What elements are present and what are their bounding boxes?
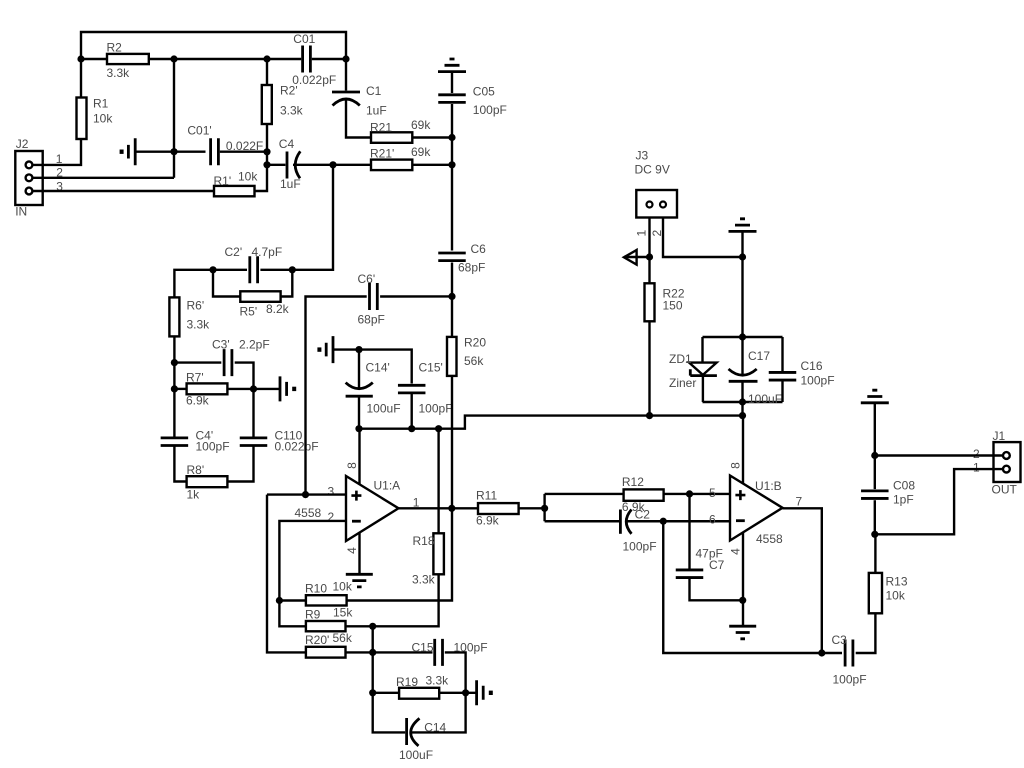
wire C14prime top to C15prime xyxy=(359,350,412,384)
svg-text:OUT: OUT xyxy=(992,483,1018,497)
pin 1 label J2 xyxy=(56,152,63,166)
svg-text:1pF: 1pF xyxy=(893,493,914,507)
svg-text:69k: 69k xyxy=(411,145,431,159)
capacitor C14prime polarized xyxy=(346,361,401,416)
svg-text:R8': R8' xyxy=(187,463,205,477)
svg-text:C2: C2 xyxy=(635,508,651,522)
junction C08 top node xyxy=(871,452,878,459)
junction zener top xyxy=(739,333,746,340)
svg-text:0.022pF: 0.022pF xyxy=(275,440,319,454)
svg-text:1uF: 1uF xyxy=(280,177,301,191)
svg-text:100uF: 100uF xyxy=(748,392,782,406)
svg-text:R11: R11 xyxy=(476,489,497,503)
wire R10 stubs xyxy=(279,599,306,601)
resistor R6prime xyxy=(169,297,210,336)
junction C14prime bottom xyxy=(355,425,362,432)
svg-text:56k: 56k xyxy=(464,354,484,368)
junction R9 wire at x372 xyxy=(369,623,376,630)
svg-text:3.3k: 3.3k xyxy=(187,318,211,332)
wire C16 branch xyxy=(781,337,783,371)
power flag arrow xyxy=(624,250,650,265)
ground above C05 xyxy=(438,59,466,72)
capacitor C2 polarized xyxy=(620,508,656,554)
wire ground down to zener network xyxy=(741,231,743,337)
svg-text:R20': R20' xyxy=(305,633,329,647)
junction R19 right xyxy=(462,689,469,696)
svg-text:4558: 4558 xyxy=(756,532,783,546)
capacitor C14 polarized xyxy=(399,718,447,762)
resistor R12 xyxy=(622,475,664,514)
wire C01 right to corner xyxy=(312,58,346,60)
wire C3prime row xyxy=(174,361,221,363)
junction at x174 top xyxy=(170,55,177,62)
junction U1B pin4 at C7 wire xyxy=(739,597,746,604)
junction C7 top at pin5 wire xyxy=(686,490,693,497)
svg-text:U1:B: U1:B xyxy=(755,479,782,493)
junction C2prime right xyxy=(289,266,296,273)
svg-text:R9: R9 xyxy=(305,607,321,621)
svg-text:100pF: 100pF xyxy=(419,402,453,416)
wire vertical x174 net xyxy=(173,59,175,178)
svg-text:3: 3 xyxy=(328,485,335,499)
ground above C08 xyxy=(861,390,889,403)
junction x174 at ground wire xyxy=(170,148,177,155)
wire C4prime vertical xyxy=(173,389,175,438)
capacitor C08 xyxy=(861,479,915,507)
wire R7prime stubs xyxy=(174,388,186,390)
pin 7 label U1B xyxy=(796,495,803,509)
svg-text:DC 9V: DC 9V xyxy=(635,163,670,177)
wire J2 pin2 to node x174 xyxy=(33,177,174,179)
ground right of R19 xyxy=(477,680,493,705)
wire R7prime to ground xyxy=(254,388,280,390)
wire C110 vertical xyxy=(252,389,254,438)
junction R11 right node xyxy=(541,505,548,512)
svg-text:1: 1 xyxy=(634,229,648,236)
svg-text:4: 4 xyxy=(729,548,743,555)
capacitor C6 xyxy=(438,242,486,275)
capacitor C15 xyxy=(412,639,488,666)
wire R20 bottom to output node xyxy=(451,376,453,508)
wire R1prime right end up to C4 node xyxy=(255,165,268,191)
svg-text:IN: IN xyxy=(15,205,27,219)
junction rail at U1B pin8 line xyxy=(739,412,746,419)
junction at C1 top xyxy=(342,55,349,62)
wire C1 bottom to R21 xyxy=(346,100,371,138)
wire C1 top xyxy=(345,59,347,91)
wire supply rail to step xyxy=(359,416,743,429)
wire C6 bottom xyxy=(451,263,453,297)
wire U1A plus input xyxy=(267,493,346,495)
junction R10 left xyxy=(276,597,283,604)
wire U1B pin8 xyxy=(742,416,744,484)
svg-text:100pF: 100pF xyxy=(196,440,230,454)
svg-text:69k: 69k xyxy=(411,118,431,132)
wire U1A pin8 xyxy=(358,429,360,485)
capacitor C01prime xyxy=(187,124,263,166)
svg-text:R18: R18 xyxy=(413,534,435,548)
wire R22 bottom to rail xyxy=(648,321,650,415)
svg-text:1k: 1k xyxy=(187,488,201,502)
wire zener box bottom xyxy=(703,401,783,403)
resistor R1prime xyxy=(214,170,259,197)
wire R6prime bottom xyxy=(173,336,175,389)
wire x372 vertical R9 to R20prime xyxy=(372,626,374,652)
junction R7prime left xyxy=(171,385,178,392)
svg-text:R2: R2 xyxy=(107,41,123,55)
capacitor C16 xyxy=(769,359,835,388)
pin 2 label J2 xyxy=(56,165,63,179)
capacitor C3 xyxy=(832,633,867,687)
wire node A vertical to R20prime xyxy=(267,495,306,653)
svg-text:100pF: 100pF xyxy=(623,540,657,554)
svg-text:1uF: 1uF xyxy=(366,104,387,118)
capacitor C01 xyxy=(292,32,336,87)
resistor R18 xyxy=(412,533,444,586)
svg-text:10k: 10k xyxy=(333,580,353,594)
wire R13 top to C08 node xyxy=(874,534,876,573)
svg-text:R1: R1 xyxy=(93,97,109,111)
junction zener bottom xyxy=(739,398,746,405)
wire R21prime to x452 xyxy=(412,164,452,166)
junction R2prime line at ground wire xyxy=(263,148,270,155)
svg-text:0.022pF: 0.022pF xyxy=(292,73,336,87)
wire J1 pin2 xyxy=(875,454,1002,456)
wire C7 vertical xyxy=(688,494,690,569)
pin 5 label U1B xyxy=(709,486,716,500)
svg-text:68pF: 68pF xyxy=(458,261,485,275)
svg-text:J3: J3 xyxy=(636,149,649,163)
svg-text:3.3k: 3.3k xyxy=(426,674,450,688)
junction ground vertical at pin2 wire xyxy=(739,253,746,260)
resistor R20 xyxy=(447,336,486,376)
svg-text:6: 6 xyxy=(709,513,716,527)
svg-text:C16: C16 xyxy=(801,359,823,373)
wire R18 top xyxy=(437,429,439,534)
svg-text:100pF: 100pF xyxy=(833,673,867,687)
svg-text:C08: C08 xyxy=(893,479,915,493)
svg-text:C14': C14' xyxy=(366,361,390,375)
svg-text:U1:A: U1:A xyxy=(374,479,401,493)
pin 4 label U1A xyxy=(345,547,359,554)
ground right of R7prime xyxy=(280,376,296,401)
svg-text:8: 8 xyxy=(729,462,743,469)
pin 4 label U1B xyxy=(729,548,743,555)
wire J3 pin2 to ground node xyxy=(663,218,743,258)
svg-text:4: 4 xyxy=(345,547,359,554)
wire C15prime bottom xyxy=(411,393,413,429)
svg-text:100uF: 100uF xyxy=(399,748,433,762)
capacitor C6prime xyxy=(358,272,385,327)
resistor R21prime xyxy=(370,145,431,170)
wire R11 right xyxy=(519,507,545,509)
junction R22 bottom at rail xyxy=(646,412,653,419)
wire top branch to R12 xyxy=(545,493,623,495)
wire C4 node down to C2prime net xyxy=(292,165,333,270)
wire R1 top to top rail and R2 xyxy=(81,32,346,98)
svg-text:C15': C15' xyxy=(419,361,443,375)
svg-text:C6': C6' xyxy=(358,272,376,286)
pin 3 label U1A xyxy=(328,485,335,499)
svg-text:8.2k: 8.2k xyxy=(266,302,290,316)
svg-text:4.7pF: 4.7pF xyxy=(252,245,283,259)
pin 1 label J1 xyxy=(973,461,980,475)
wire ground to C01prime xyxy=(135,150,205,152)
wire R19 stubs xyxy=(373,692,399,694)
svg-text:C2': C2' xyxy=(225,245,243,259)
svg-text:R1': R1' xyxy=(214,174,232,188)
wire C15 right down to R19 xyxy=(445,652,466,692)
resistor R19 xyxy=(396,674,449,699)
op-amp U1:A xyxy=(295,476,401,541)
wire C3 right up to R13 xyxy=(856,613,876,653)
wire C6prime row right xyxy=(380,295,452,298)
wire C08 vertical xyxy=(874,500,876,534)
pin 1 label U1A xyxy=(413,496,420,510)
resistor R20prime xyxy=(305,631,353,658)
svg-text:R6': R6' xyxy=(187,299,205,313)
svg-text:8: 8 xyxy=(345,462,359,469)
wire R2 right to C01 xyxy=(149,58,301,60)
svg-text:Ziner: Ziner xyxy=(669,376,696,390)
svg-text:R10: R10 xyxy=(305,582,327,596)
node junction at R2 left xyxy=(77,55,84,62)
resistor R2prime xyxy=(262,84,304,125)
ground left of C14prime xyxy=(317,336,333,363)
junction feedback at pin6 wire xyxy=(660,518,667,525)
svg-text:C3': C3' xyxy=(212,338,230,352)
svg-text:R7': R7' xyxy=(186,371,204,385)
junction R19 left xyxy=(369,689,376,696)
svg-text:4558: 4558 xyxy=(295,506,322,520)
pin 6 label U1B xyxy=(709,513,716,527)
resistor R13 xyxy=(869,573,908,613)
svg-text:15k: 15k xyxy=(333,605,353,619)
junction C6 bottom node xyxy=(448,293,455,300)
wire C2prime plates stubs xyxy=(213,269,247,271)
wire C6prime row left xyxy=(306,297,367,495)
pin 8 label U1B xyxy=(729,462,743,469)
resistor R22 xyxy=(645,283,685,321)
wire C4 to R21prime xyxy=(267,164,285,166)
svg-text:56k: 56k xyxy=(333,631,353,645)
svg-text:C6: C6 xyxy=(471,242,487,256)
svg-text:J2: J2 xyxy=(16,137,29,151)
diode ZD1 zener xyxy=(669,337,717,402)
wire bottom branch to C2 xyxy=(545,520,619,522)
wire U1B pin4 to ground xyxy=(742,533,744,625)
ground left of C01prime xyxy=(120,138,136,165)
svg-text:100uF: 100uF xyxy=(367,402,401,416)
connector J1 xyxy=(992,429,1021,497)
wire ground to C14prime top xyxy=(333,348,359,350)
svg-text:R21: R21 xyxy=(370,121,392,135)
junction R18 top at rail xyxy=(435,425,442,432)
wire U1A output xyxy=(399,507,479,509)
wire C2 right to pin6 xyxy=(626,520,730,522)
junction at R2prime top xyxy=(263,55,270,62)
resistor R8prime xyxy=(187,463,228,502)
pin 2 label U1A xyxy=(328,510,335,524)
pin 1 label J3 xyxy=(634,229,648,236)
capacitor C2prime xyxy=(225,245,283,283)
wire C14 right up to R19 wire xyxy=(411,693,466,733)
resistor R1 xyxy=(77,97,114,140)
ground above zener network xyxy=(729,219,757,232)
junction plus input at long vertical xyxy=(302,491,309,498)
svg-text:2: 2 xyxy=(973,447,980,461)
pin 8 label U1A xyxy=(345,462,359,469)
svg-text:C01': C01' xyxy=(187,124,211,138)
svg-text:R12: R12 xyxy=(622,475,644,489)
wire R21 to x452 xyxy=(412,136,452,138)
capacitor C05 xyxy=(438,85,507,118)
svg-text:10k: 10k xyxy=(93,112,113,126)
wire U1A minus input xyxy=(279,521,346,601)
wire U1B output down to bottom rail xyxy=(783,508,822,653)
connector J3 xyxy=(635,149,678,218)
junction C15prime bottom xyxy=(408,425,415,432)
wire C14prime vertical xyxy=(358,350,360,388)
wire R2 left stub xyxy=(81,58,107,60)
wire R2prime vertical xyxy=(266,59,268,85)
svg-text:2.2pF: 2.2pF xyxy=(239,338,270,352)
wire feedback bottom rail xyxy=(663,521,842,653)
wire C17 vertical xyxy=(741,337,743,375)
svg-text:3.3k: 3.3k xyxy=(412,573,436,587)
wire J2 pin3 to R1prime xyxy=(33,190,214,192)
svg-text:R20: R20 xyxy=(464,336,486,350)
svg-text:10k: 10k xyxy=(886,589,906,603)
wire split vertical at x544 xyxy=(543,494,545,521)
svg-text:C1: C1 xyxy=(366,84,382,98)
ground below U1B xyxy=(729,626,756,639)
wire C01prime to R2prime bottom node xyxy=(220,150,267,152)
capacitor C1 polarized xyxy=(332,84,387,118)
junction R7prime right node xyxy=(250,385,257,392)
wire R12 right to pin5 xyxy=(664,493,730,495)
capacitor C4 polarized xyxy=(279,137,301,191)
junction output U1A node xyxy=(448,505,455,512)
resistor R10 xyxy=(305,580,353,606)
svg-text:R5': R5' xyxy=(240,304,258,318)
junction output at bottom rail xyxy=(818,649,825,656)
wire R18 bottom to R9 row xyxy=(346,574,439,626)
svg-text:5: 5 xyxy=(709,486,716,500)
ground below U1A xyxy=(346,574,373,587)
wire C08 top to ground above xyxy=(874,403,876,455)
wire R20prime right to C15 xyxy=(346,651,433,653)
svg-text:R19: R19 xyxy=(396,675,418,689)
wire C2prime left to R6prime xyxy=(174,270,213,298)
wire R20 top xyxy=(451,296,453,337)
resistor R21 xyxy=(370,118,431,143)
svg-text:R2': R2' xyxy=(280,84,298,98)
wire R10 left down to R9 xyxy=(279,601,306,627)
resistor R2 xyxy=(107,41,149,81)
capacitor C7 xyxy=(676,547,725,578)
svg-text:68pF: 68pF xyxy=(358,313,385,327)
wire C05 bottom to C6 xyxy=(451,104,453,251)
junction at x333 on C4 wire xyxy=(329,161,336,168)
svg-text:ZD1: ZD1 xyxy=(669,352,692,366)
wire x372 down to R19 and C14 xyxy=(373,652,406,732)
junction C2prime left xyxy=(209,266,216,273)
svg-text:10k: 10k xyxy=(238,170,258,184)
pin 2 label J3 xyxy=(650,229,664,236)
junction x452 at R21 wire xyxy=(448,134,455,141)
svg-text:3.3k: 3.3k xyxy=(280,104,304,118)
svg-text:C4: C4 xyxy=(279,137,295,151)
capacitor C3prime xyxy=(212,338,270,377)
svg-text:3.3k: 3.3k xyxy=(107,66,131,80)
capacitor C15prime xyxy=(398,361,453,416)
svg-text:C01: C01 xyxy=(293,32,315,46)
junction C3prime left node xyxy=(171,359,178,366)
resistor R7prime xyxy=(186,371,227,408)
svg-text:R21': R21' xyxy=(370,146,394,160)
svg-text:C7: C7 xyxy=(709,558,725,572)
wire zener network down to rail and U1B pin8 xyxy=(741,402,743,416)
wire zener box top xyxy=(703,336,783,338)
pin 2 label J1 xyxy=(973,447,980,461)
svg-text:J1: J1 xyxy=(993,429,1006,443)
svg-text:100pF: 100pF xyxy=(801,374,835,388)
wire J2 pin1 to R1 xyxy=(33,139,81,165)
resistor R5prime xyxy=(240,291,290,318)
connector J2 xyxy=(15,137,43,218)
capacitor C17 polarized xyxy=(729,349,783,406)
svg-text:7: 7 xyxy=(796,495,803,509)
svg-text:100pF: 100pF xyxy=(473,103,507,117)
svg-text:C17: C17 xyxy=(748,349,770,363)
junction C08 bottom node xyxy=(871,531,878,538)
resistor R9 xyxy=(305,605,353,631)
wire U1A pin4 to ground xyxy=(358,533,360,574)
svg-text:1: 1 xyxy=(973,461,980,475)
svg-text:6.9k: 6.9k xyxy=(476,514,500,528)
junction C4 left node xyxy=(263,161,270,168)
junction R20prime wire at x372 xyxy=(369,649,376,656)
op-amp U1:B xyxy=(730,476,783,547)
wire R5prime loop xyxy=(213,270,240,297)
svg-text:150: 150 xyxy=(663,299,683,313)
resistor R11 xyxy=(476,489,519,528)
svg-text:6.9k: 6.9k xyxy=(186,394,210,408)
svg-text:C05: C05 xyxy=(473,85,495,99)
svg-text:R13: R13 xyxy=(886,575,908,589)
wire J3 pin1 down xyxy=(648,218,650,284)
junction power flag node xyxy=(646,253,653,260)
wire J1 pin1 xyxy=(875,469,1002,534)
capacitor C4prime xyxy=(161,429,230,454)
pin 3 label J2 xyxy=(56,179,63,193)
junction x452 at R21prime wire xyxy=(448,161,455,168)
capacitor C110 xyxy=(240,429,319,454)
svg-text:C15: C15 xyxy=(412,641,434,655)
svg-text:C3: C3 xyxy=(832,633,848,647)
wire ground to C05 xyxy=(451,73,453,94)
junction C14prime top xyxy=(355,346,362,353)
